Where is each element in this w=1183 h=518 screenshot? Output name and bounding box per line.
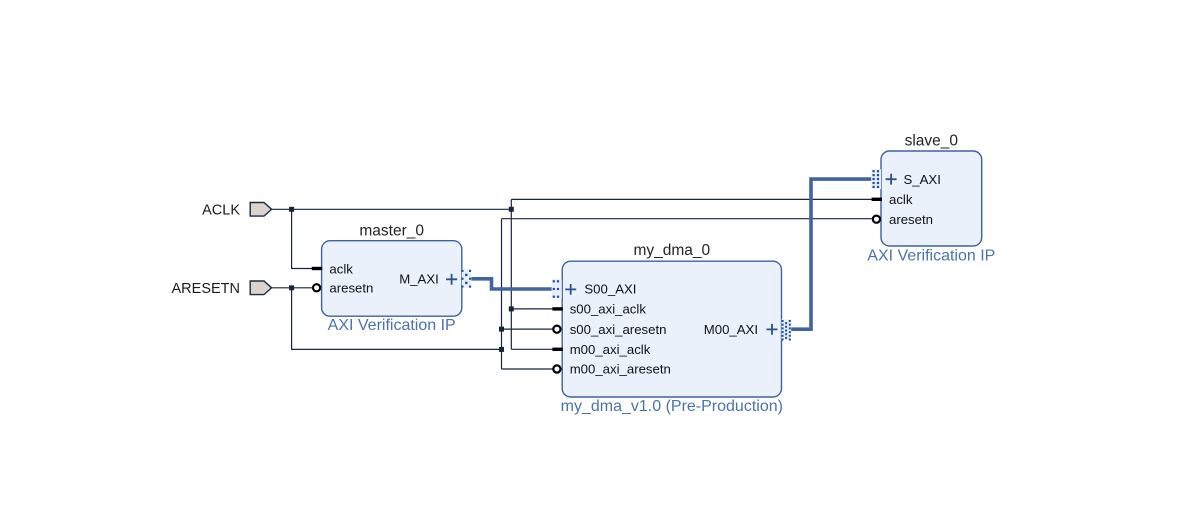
pin master_0.aclk (312, 261, 353, 276)
svg-text:S_AXI: S_AXI (904, 172, 941, 187)
wire ARESETN: branch to m00_axi_aresetn (502, 368, 554, 370)
wire ACLK: top run to slave aclk (511, 198, 873, 200)
svg-text:my_dma_0: my_dma_0 (633, 242, 710, 259)
svg-text:m00_axi_aresetn: m00_axi_aresetn (570, 362, 671, 377)
svg-text:aresetn: aresetn (329, 281, 373, 296)
wire ACLK: branch to s00_axi_aclk (511, 308, 554, 310)
block slave_0 (867, 132, 995, 264)
svg-text:aresetn: aresetn (889, 212, 933, 227)
wire ACLK: down branch to master aclk (292, 209, 313, 268)
svg-text:S00_AXI: S00_AXI (584, 282, 636, 297)
svg-text:M_AXI: M_AXI (399, 271, 439, 286)
pin my_dma_0.M00_AXI (interface, expanded-dense) (704, 319, 791, 340)
svg-text:slave_0: slave_0 (905, 132, 959, 149)
svg-text:master_0: master_0 (359, 222, 424, 239)
junction ARESETN at port split (289, 285, 294, 290)
bus wire M00_AXI to S_AXI (791, 179, 872, 329)
svg-text:M00_AXI: M00_AXI (704, 322, 758, 337)
pin my_dma_0.m00_axi_aclk (552, 342, 650, 357)
wire ARESETN: top run to slave aresetn (502, 218, 872, 220)
block my_dma_0 (561, 242, 783, 415)
pin master_0.aresetn (active low) (313, 281, 373, 296)
junction ACLK at trunk split (509, 207, 514, 212)
svg-text:AXI Verification IP: AXI Verification IP (328, 317, 456, 334)
svg-text:m00_axi_aclk: m00_axi_aclk (570, 342, 651, 357)
bus wire M_AXI to S00_AXI (471, 279, 552, 289)
pin slave_0.aresetn (active low) (873, 212, 933, 227)
block master_0 (322, 222, 462, 334)
svg-text:s00_axi_aresetn: s00_axi_aresetn (570, 322, 667, 337)
svg-text:aclk: aclk (329, 261, 353, 276)
svg-text:ARESETN: ARESETN (172, 281, 241, 297)
wire ARESETN: port to master aresetn (272, 287, 313, 289)
junction ARESETN at s00_axi_aresetn branch (499, 327, 504, 332)
svg-text:my_dma_v1.0 (Pre-Production): my_dma_v1.0 (Pre-Production) (561, 398, 783, 415)
svg-text:AXI Verification IP: AXI Verification IP (867, 248, 995, 265)
pin master_0.M_AXI (interface, collapsed) (399, 269, 471, 288)
pin my_dma_0.m00_axi_aresetn (active low) (553, 362, 671, 377)
junction ACLK at s00_axi_aclk branch (509, 306, 514, 311)
wire ACLK: port to trunk (272, 208, 512, 210)
svg-text:s00_axi_aclk: s00_axi_aclk (570, 302, 647, 317)
svg-text:ACLK: ACLK (202, 202, 240, 218)
pin slave_0.aclk (872, 192, 913, 207)
wire ACLK: branch to m00_axi_aclk (511, 348, 554, 350)
junction ARESETN at feed join (499, 347, 504, 352)
svg-text:aclk: aclk (889, 192, 913, 207)
port ACLK (202, 202, 271, 218)
wire ARESETN: branch to s00_axi_aresetn (502, 328, 554, 330)
pin my_dma_0.S00_AXI (interface) (552, 279, 637, 298)
port ARESETN (172, 281, 272, 297)
wire ARESETN: vertical trunk (501, 219, 503, 369)
pin my_dma_0.s00_axi_aclk (552, 302, 646, 317)
pin slave_0.S_AXI (interface) (871, 169, 941, 189)
junction ACLK at port split (289, 207, 294, 212)
wire ACLK: vertical trunk (510, 199, 512, 349)
pin my_dma_0.s00_axi_aresetn (active low) (553, 322, 666, 337)
wire ARESETN: down branch feed (292, 288, 502, 350)
